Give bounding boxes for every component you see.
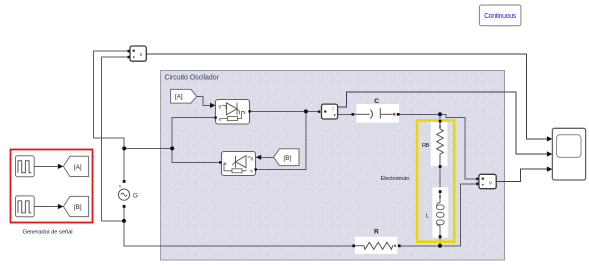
wire v1 output to scope input1 [146, 54, 548, 139]
wire bottom rail right to v2 minus [401, 184, 478, 246]
svg-text:v: v [489, 181, 492, 187]
wire v1 plus input [93, 51, 129, 148]
scope block [547, 128, 586, 180]
junction node1 [122, 146, 126, 150]
wire current i output to scope input2 [338, 92, 549, 154]
junction node3 [122, 219, 126, 223]
wire v2 output to scope input3 [496, 169, 548, 182]
svg-text:Electroimán: Electroimán [380, 176, 409, 182]
arrowhead to tag B [58, 204, 64, 209]
svg-text:[A]: [A] [74, 164, 82, 171]
arrowhead into thyristor2 g from right [256, 155, 262, 160]
wire pulse2 to tag B [34, 206, 60, 208]
goto tag A [63, 156, 88, 176]
goto tag B [63, 196, 88, 216]
wire source G bottom to node3 [123, 206, 125, 221]
voltage measurement V2 [476, 174, 496, 188]
current measurement block [318, 104, 338, 119]
inductor L [426, 187, 448, 238]
wire bottom rail left [124, 221, 356, 246]
wire node1 to source G top [123, 148, 125, 181]
junction node5 [438, 112, 442, 116]
wire node4 down to thyristor2 k [257, 111, 306, 169]
wire node5 down to RB top [439, 114, 441, 121]
resistor RB [422, 120, 447, 168]
AC source G [118, 180, 138, 208]
from tag A oscillator [171, 89, 197, 103]
svg-text:R: R [374, 229, 379, 236]
svg-text:[B]: [B] [284, 155, 292, 162]
Continuous block [479, 5, 521, 26]
junction node4 [304, 109, 308, 113]
svg-text:i: i [333, 107, 334, 113]
wire capacitor C output [399, 113, 440, 115]
wire current block to capacitor C [338, 114, 354, 116]
resistor R [352, 229, 400, 254]
junction node2 [170, 146, 174, 150]
wire from tag A to thyristor1 g [197, 96, 211, 105]
svg-text:Generador de señal: Generador de señal [23, 230, 73, 236]
wire from tag B to thyristor2 g [261, 156, 274, 158]
svg-text:[B]: [B] [74, 204, 82, 211]
voltage measurement V1 [128, 46, 147, 61]
subsystem region Circuito Oscilador [161, 71, 505, 261]
wire node2 up to thyristor1 a [172, 118, 215, 149]
red group box Generador de senal [11, 150, 93, 223]
svg-text:Continuous: Continuous [484, 13, 517, 20]
svg-text:RB: RB [422, 143, 430, 149]
wire pulse1 to tag A [34, 165, 60, 167]
junction node6 [438, 244, 442, 248]
wire v1 minus input [102, 57, 129, 221]
svg-text:Circuito Oscilador: Circuito Oscilador [165, 75, 220, 82]
svg-text:C: C [374, 98, 379, 105]
wire L bottom to bottom rail [439, 237, 441, 246]
thyristor block 1 [214, 100, 250, 125]
capacitor C [352, 98, 400, 123]
svg-text:G: G [133, 193, 138, 200]
wire node1 to node2 [124, 147, 172, 149]
svg-text:[A]: [A] [175, 94, 183, 101]
svg-text:v: v [140, 52, 143, 58]
wire thyristor1 k output [250, 110, 320, 112]
arrowhead to tag A [58, 164, 64, 169]
yellow group box Electroiman [417, 120, 454, 241]
thyristor block 2 [219, 152, 257, 176]
wire node2 down to thyristor2 a [172, 148, 219, 162]
pulse generator 2 [16, 196, 35, 217]
pulse generator 1 [16, 156, 35, 177]
wire RB bottom to L top [439, 167, 441, 192]
from tag B oscillator [274, 149, 299, 166]
wire node5 jog to v2 plus [440, 114, 477, 179]
arrowhead into thyristor1 g [210, 103, 216, 108]
signal wires [146, 54, 548, 182]
